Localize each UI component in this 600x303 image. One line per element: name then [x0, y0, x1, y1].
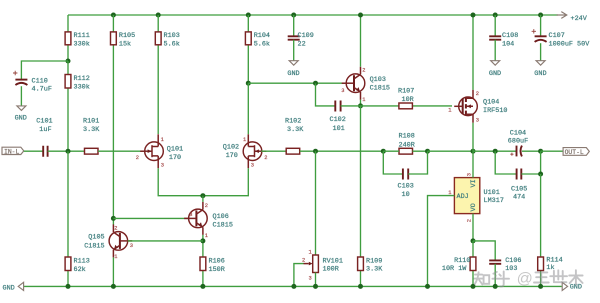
svg-text:2: 2 — [302, 258, 305, 264]
junction top rail R105 — [111, 13, 116, 18]
svg-text:C108: C108 — [502, 32, 518, 40]
port OUT-L — [563, 148, 589, 157]
wire Q106 collector up to tail — [202, 196, 204, 202]
wire bottom GND rail — [24, 285, 562, 287]
resistor R109 — [358, 106, 364, 287]
svg-text:22: 22 — [298, 41, 306, 49]
wire VI pin to output node — [472, 151, 474, 177]
svg-text:3: 3 — [466, 173, 472, 176]
pin 2 of Q103 — [362, 68, 365, 74]
junction Q105 base tap — [200, 238, 205, 243]
junction top rail C109 — [291, 13, 296, 18]
pin 3 of RV101 — [309, 276, 312, 282]
label RV101 value — [323, 257, 343, 273]
junction rail RV101 bottom — [313, 284, 318, 289]
label C101 value — [36, 118, 52, 135]
pin 1 of Q105 — [114, 254, 117, 260]
label U101 value — [484, 189, 504, 205]
junction top rail C108 — [493, 13, 498, 18]
svg-text:1: 1 — [161, 137, 164, 143]
pin 3 of Q102 — [251, 163, 254, 169]
resistor R108 — [383, 148, 427, 154]
pin 1 of U101 — [448, 190, 451, 196]
svg-text:5.6k: 5.6k — [164, 41, 180, 49]
resistor R105 — [111, 15, 117, 218]
svg-text:R112: R112 — [74, 75, 90, 83]
label C109 value — [298, 32, 314, 48]
svg-text:1uF: 1uF — [39, 126, 51, 134]
junction Q103 emitter node — [358, 103, 363, 108]
junction Q102 drain / Q103 base — [246, 81, 251, 86]
wire C106 to rail — [494, 264, 496, 287]
junction C104/C105 left node — [493, 149, 498, 154]
wire R108 right to Q104 source node — [428, 150, 474, 152]
label C105 value — [511, 185, 527, 201]
svg-text:62k: 62k — [74, 266, 86, 274]
wire C101 to R101 — [48, 150, 85, 152]
label R106 value — [209, 258, 225, 275]
svg-text:R104: R104 — [254, 32, 270, 40]
wire C104 to OUT node — [522, 150, 541, 152]
capacitor C107 — [532, 29, 547, 42]
svg-text:C1815: C1815 — [213, 221, 233, 229]
ground below C110 — [17, 86, 26, 110]
svg-text:R111: R111 — [74, 32, 90, 40]
label Q101 value — [167, 145, 183, 162]
wire Q102 gate to R102 — [261, 150, 286, 152]
pin 1 of Q102 — [243, 137, 246, 143]
pin 2 of RV101 — [302, 258, 305, 264]
svg-text:3: 3 — [130, 243, 133, 249]
pin 3 of U101 — [466, 173, 472, 176]
svg-text:240R: 240R — [399, 141, 415, 149]
pin 3 of Q104 — [476, 118, 479, 124]
net label +24V arrow — [557, 12, 567, 19]
wire OUT node to port — [541, 150, 564, 152]
svg-text:C106: C106 — [505, 257, 521, 265]
label C110 value — [32, 77, 52, 93]
pin 2 of U101 — [466, 219, 472, 222]
junction rail R113 — [66, 284, 71, 289]
junction rail Q105 emitter — [111, 284, 116, 289]
pin 2 of Q104 — [476, 91, 479, 97]
junction R111/R112/C110 node — [66, 59, 71, 64]
wire VO pin down — [472, 214, 474, 241]
svg-text:170: 170 — [226, 152, 238, 160]
wire C102 to emitter node — [341, 105, 361, 107]
junction rail ADJ — [425, 284, 430, 289]
label GND under C110 — [15, 115, 27, 123]
svg-text:15k: 15k — [119, 41, 131, 49]
svg-text:R101: R101 — [83, 118, 99, 126]
wire C105 right up to OUT node — [521, 173, 540, 175]
svg-text:C107: C107 — [549, 32, 565, 40]
wire +24V top rail — [68, 14, 558, 16]
junction top rail R103 — [156, 13, 161, 18]
resistor R104 — [245, 15, 251, 83]
junction OUT node — [538, 149, 543, 154]
resistor R110 — [470, 241, 476, 287]
label R109 value — [366, 257, 383, 273]
svg-text:C103: C103 — [398, 182, 414, 190]
label GND under C107 — [534, 70, 546, 78]
label Q104 value — [483, 98, 507, 115]
svg-text:1: 1 — [362, 97, 365, 103]
wire Q101 source to tail — [158, 168, 248, 196]
svg-text:C102: C102 — [330, 116, 346, 124]
label C104 value — [508, 129, 528, 145]
resistor R102 — [286, 148, 300, 154]
junction rail R109 — [358, 284, 363, 289]
junction tail / Q106 collector — [200, 193, 205, 198]
label Q102 value — [223, 144, 239, 161]
svg-text:10R: 10R — [402, 96, 414, 104]
potentiometer RV101 — [304, 255, 319, 286]
watermark Zhihu text — [474, 270, 582, 287]
junction R108 right — [425, 149, 430, 154]
wire node to C103 left — [383, 151, 403, 174]
svg-text:3: 3 — [309, 276, 312, 282]
svg-text:R109: R109 — [366, 257, 382, 265]
junction VO node — [471, 238, 476, 243]
wire rail to C107 — [540, 15, 542, 36]
svg-text:R105: R105 — [119, 32, 135, 40]
wire R105 to Q105 collector node — [112, 218, 114, 224]
ground below C107 — [536, 43, 545, 65]
label GND under C109 — [287, 70, 299, 78]
label C108 value — [502, 32, 518, 48]
svg-text:R106: R106 — [209, 258, 225, 266]
wire Q106 emitter to R106 — [202, 235, 204, 257]
svg-text:2: 2 — [264, 155, 267, 161]
pin 1 of Q104 gate — [448, 107, 451, 113]
svg-text:R103: R103 — [164, 32, 180, 40]
pin 1 of Q106 — [205, 233, 208, 239]
wire node B down to RV101 — [315, 151, 317, 255]
junction rail R106 — [200, 284, 205, 289]
svg-text:C109: C109 — [298, 32, 314, 40]
junction top rail R104 — [246, 13, 251, 18]
capacitor C108 — [489, 36, 501, 39]
svg-text:1: 1 — [448, 190, 451, 196]
svg-text:U101: U101 — [484, 189, 500, 197]
capacitor C104 — [510, 146, 522, 157]
svg-text:1: 1 — [205, 233, 208, 239]
capacitor C110 — [13, 71, 27, 85]
junction C105/R114 node — [538, 172, 543, 177]
wire R104 to Q102 drain — [247, 83, 249, 134]
resistor R111 — [65, 15, 71, 61]
junction rail C106 — [493, 284, 498, 289]
svg-text:R113: R113 — [74, 258, 90, 266]
svg-text:3: 3 — [251, 163, 254, 169]
svg-text:2: 2 — [205, 203, 208, 209]
wire base node down to C102 — [316, 83, 336, 106]
ground below C108 — [491, 40, 500, 65]
label R110 value — [442, 257, 471, 273]
transistor Q103 (2SC1815) — [342, 67, 365, 100]
svg-text:Q103: Q103 — [370, 76, 386, 84]
label C102 value — [330, 116, 346, 133]
resistor R101 — [85, 148, 99, 154]
label Q106 value — [213, 213, 233, 229]
svg-text:170: 170 — [169, 154, 181, 162]
wire Q103 emitter to node — [360, 100, 362, 106]
wire Q105 base to tap — [128, 240, 203, 242]
pin 3 of Q101 — [161, 163, 164, 169]
transistor Q105 (2SC1815) — [109, 224, 132, 257]
wire rail to C108 — [494, 15, 496, 36]
svg-text:1: 1 — [243, 137, 246, 143]
svg-text:R102: R102 — [285, 118, 301, 126]
wire Q103 collector to rail — [360, 15, 362, 67]
wire Q102 drain node to Q103 base — [248, 82, 346, 84]
svg-text:680uF: 680uF — [508, 137, 528, 145]
wire R101 to Q101 gate — [98, 150, 145, 152]
junction rail RV101 wiper — [291, 284, 296, 289]
label Q105 value — [84, 233, 104, 250]
transistor Q102 (2SK170 JFET) — [243, 134, 266, 168]
transistor Q101 (2SK170 JFET) — [140, 134, 163, 168]
wire IN-L to C101 — [24, 150, 43, 152]
regulator U101 (LM317) — [454, 178, 479, 214]
svg-text:C104: C104 — [510, 129, 526, 137]
junction top rail Q103 collector — [358, 13, 363, 18]
junction C102 tap on base wire — [313, 81, 318, 86]
junction top rail Q104 drain — [471, 13, 476, 18]
label C106 value — [505, 257, 521, 273]
junction Q104 source / VI node — [471, 149, 476, 154]
pin 1 of Q101 — [161, 137, 164, 143]
svg-text:3: 3 — [189, 212, 192, 218]
label R105 value — [119, 32, 135, 48]
port IN-L — [2, 147, 24, 155]
svg-text:RV101: RV101 — [323, 257, 343, 265]
svg-text:Q104: Q104 — [483, 98, 499, 106]
label R111 value — [74, 32, 90, 48]
resistor R107 — [361, 103, 453, 109]
svg-text:@: @ — [517, 271, 533, 288]
svg-text:3: 3 — [161, 163, 164, 169]
label GND under C108 — [489, 70, 501, 78]
label +24V — [571, 15, 588, 23]
label GND right — [570, 284, 582, 292]
resistor R106 — [200, 257, 206, 286]
capacitor C106 — [489, 260, 501, 263]
svg-text:3.3K: 3.3K — [366, 266, 383, 274]
svg-text:C1815: C1815 — [84, 243, 104, 251]
svg-text:2: 2 — [476, 91, 479, 97]
svg-text:IRF510: IRF510 — [483, 107, 507, 115]
svg-text:2: 2 — [362, 68, 365, 74]
svg-text:R108: R108 — [399, 133, 415, 141]
resistor R113 — [65, 151, 71, 286]
svg-text:GND: GND — [489, 70, 501, 78]
svg-text:GND: GND — [534, 70, 546, 78]
pin 3 of Q103 — [341, 88, 344, 94]
junction R108 left — [381, 149, 386, 154]
svg-text:+24V: +24V — [571, 15, 588, 23]
label C107 value — [549, 32, 591, 48]
svg-text:C101: C101 — [36, 118, 52, 126]
svg-text:104: 104 — [502, 41, 514, 49]
capacitor C109 — [288, 36, 300, 39]
label Q103 value — [370, 76, 390, 92]
label R113 value — [74, 258, 90, 275]
junction rail R110 — [471, 284, 476, 289]
svg-text:IN-L: IN-L — [4, 149, 20, 156]
pin 2 of Q106 — [205, 203, 208, 209]
junction rail R114 — [538, 284, 543, 289]
svg-text:OUT-L: OUT-L — [565, 149, 584, 156]
port GND left — [18, 282, 23, 290]
svg-text:10: 10 — [402, 191, 410, 199]
ground below C109 — [289, 40, 298, 65]
transistor Q106 (2SC1815) — [184, 202, 207, 235]
svg-text:3: 3 — [341, 88, 344, 94]
label R103 value — [164, 32, 180, 48]
pin 3 of Q106 — [189, 212, 192, 218]
svg-text:5.6k: 5.6k — [254, 41, 270, 49]
label R101 value — [83, 118, 100, 135]
svg-text:10R 1W: 10R 1W — [442, 265, 467, 273]
capacitor C101 — [43, 146, 47, 157]
label R107 value — [398, 88, 414, 105]
resistor R114 — [538, 174, 544, 286]
svg-text:R110: R110 — [454, 257, 470, 265]
pin 2 of Q105 — [114, 226, 117, 232]
svg-text:2: 2 — [114, 226, 117, 232]
svg-text:GND: GND — [287, 70, 299, 78]
svg-text:150R: 150R — [209, 266, 225, 274]
label R104 value — [254, 32, 270, 48]
wire VO node to C106 — [473, 241, 495, 261]
svg-text:C110: C110 — [32, 77, 48, 85]
svg-text:100R: 100R — [323, 266, 339, 274]
port GND right — [562, 282, 567, 290]
resistor R112 — [65, 61, 71, 151]
pin 3 of Q105 — [130, 243, 133, 249]
label R108 value — [399, 133, 415, 150]
svg-text:GND: GND — [3, 284, 15, 292]
svg-text:Q105: Q105 — [88, 233, 104, 241]
transistor Q104 (IRF510 MOSFET) — [454, 90, 477, 123]
wire OUT node down to R114 — [540, 151, 542, 174]
wire R102 to node B — [300, 150, 384, 152]
wire left node down to C105 — [495, 151, 516, 174]
svg-text:1: 1 — [309, 250, 312, 256]
junction Q105 collector / Q106 base — [111, 216, 116, 221]
svg-text:LM317: LM317 — [484, 197, 504, 205]
wire output node to C104 — [473, 150, 517, 152]
wire Q105 emitter to rail — [112, 257, 114, 286]
svg-text:3: 3 — [476, 118, 479, 124]
svg-text:2: 2 — [136, 155, 139, 161]
capacitor C102 — [335, 101, 340, 112]
label R114 value — [546, 257, 562, 272]
wire Q105 collector node to Q106 base — [113, 217, 189, 219]
label C103 value — [398, 182, 414, 199]
resistor R103 — [155, 15, 161, 134]
pin 2 of Q102 — [264, 155, 267, 161]
wire Q104 source to output node — [472, 123, 474, 151]
junction top rail C107 — [538, 13, 543, 18]
svg-text:330k: 330k — [74, 83, 90, 91]
svg-text:R107: R107 — [398, 88, 414, 96]
svg-text:474: 474 — [513, 194, 525, 202]
svg-text:101: 101 — [333, 125, 345, 133]
pin 1 of RV101 — [309, 250, 312, 256]
svg-text:1: 1 — [114, 254, 117, 260]
svg-text:Q102: Q102 — [223, 144, 239, 152]
svg-text:C105: C105 — [511, 185, 527, 193]
wire rail to C109 — [293, 15, 295, 36]
svg-text:ADJ: ADJ — [457, 193, 469, 201]
label R102 value — [285, 118, 304, 135]
svg-text:GND: GND — [15, 115, 27, 123]
pin 2 of Q101 — [136, 155, 139, 161]
svg-text:VI: VI — [470, 179, 478, 187]
label R112 value — [74, 75, 90, 92]
svg-text:4.7uF: 4.7uF — [32, 86, 52, 94]
svg-text:VO: VO — [470, 203, 478, 211]
svg-text:Q106: Q106 — [213, 213, 229, 221]
svg-text:2: 2 — [466, 219, 472, 222]
svg-text:1000uF 50V: 1000uF 50V — [549, 41, 591, 49]
capacitor C103 — [403, 169, 408, 180]
svg-text:3.3K: 3.3K — [83, 126, 100, 134]
wire Q104 drain to rail — [472, 15, 474, 90]
svg-text:Q101: Q101 — [167, 145, 183, 153]
svg-text:330k: 330k — [74, 41, 90, 49]
wire C103 right up to node — [408, 151, 427, 174]
pin 1 of Q103 — [362, 97, 365, 103]
wire RV101 wiper to rail — [294, 264, 304, 287]
capacitor C105 — [517, 169, 522, 180]
wire node to C110 — [21, 61, 68, 80]
junction node B (RV101 tap) — [313, 149, 318, 154]
label GND left — [3, 284, 15, 292]
wire ADJ pin to adj node — [428, 196, 455, 287]
svg-text:C1815: C1815 — [370, 84, 390, 92]
junction input node — [66, 149, 71, 154]
svg-text:1: 1 — [448, 107, 451, 113]
svg-text:3.3K: 3.3K — [287, 126, 304, 134]
